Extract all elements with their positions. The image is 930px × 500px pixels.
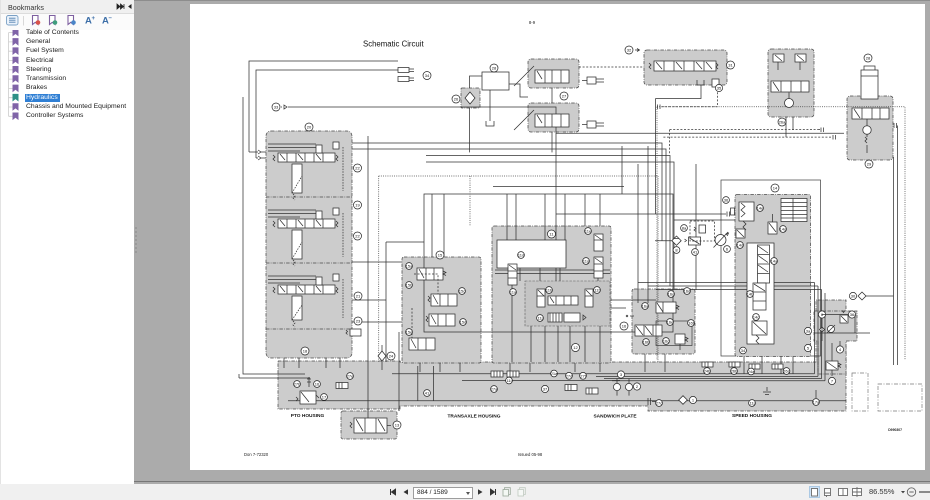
future attachment dashed outline b: [878, 384, 922, 411]
wire: chamber interconnects: [512, 268, 598, 362]
wire: midfield bundle upper: [352, 143, 662, 241]
wire: drops from body top into blocks: [432, 194, 600, 257]
circled label 16e: [667, 319, 675, 326]
coupling at block 14 inlet: [727, 208, 735, 217]
wire: pump interconnect verticals: [551, 88, 553, 152]
svg-text:TRANSAXLE HOUSING: TRANSAXLE HOUSING: [447, 414, 500, 420]
circled label 18: [301, 347, 309, 355]
circled label 11d: [518, 252, 525, 259]
circled label 15b: [406, 282, 414, 289]
valve 14g: [768, 214, 777, 234]
circled label 14e: [757, 205, 765, 212]
tank symbol below 31: [697, 80, 704, 85]
block 15 internals: [409, 268, 457, 350]
wire: midfield bundle third: [426, 156, 670, 287]
drain restrictor 35: [712, 79, 723, 92]
valve 11g: [594, 257, 603, 278]
svg-text:8-9: 8-9: [529, 20, 536, 25]
solenoid block 26a: [768, 49, 814, 117]
future attachment dashed outline a: [852, 373, 868, 411]
circled label 14c: [753, 314, 760, 321]
wire: valve31 tank drop: [656, 85, 702, 214]
relief valve 24: [378, 345, 395, 370]
svg-text:23: 23: [356, 319, 361, 324]
transaxle dashed boundary: [379, 176, 658, 362]
svg-text:19: 19: [355, 203, 360, 208]
svg-text:30: 30: [851, 294, 856, 299]
wire: far-left vertical supply: [239, 97, 310, 378]
valve 14d: [736, 229, 745, 238]
inner dashed boundary: [469, 176, 471, 226]
accumulator 14e: [739, 202, 754, 230]
governor spool 14b: [753, 283, 766, 310]
circled label 15: [436, 251, 444, 259]
svg-text:14e: 14e: [757, 206, 764, 211]
wire: speed feeds: [695, 164, 697, 290]
svg-text:15c: 15c: [459, 289, 465, 294]
svg-text:27: 27: [562, 94, 567, 99]
circled label 2: [633, 383, 640, 390]
circled label 15c: [459, 288, 466, 295]
wire: links to block 16: [611, 300, 656, 308]
stack module 3 spool valve: [268, 274, 343, 327]
svg-text:14d: 14d: [737, 243, 744, 248]
circled label 26a: [778, 118, 786, 126]
speed band fittings: [702, 362, 713, 367]
speed fitting b: [729, 362, 740, 367]
circled label 32: [625, 46, 640, 54]
circled label 27a: [491, 386, 499, 393]
stack module 1 spool valve: [268, 142, 343, 200]
PTO clutch valve block 13: [341, 411, 397, 439]
circled label 21: [354, 292, 362, 300]
circled label 41a: [692, 249, 699, 256]
svg-text:16a: 16a: [642, 304, 649, 309]
circled label 22 lower: [354, 232, 362, 240]
wire: band bundle pipes: [392, 374, 825, 381]
svg-text:24b: 24b: [704, 369, 711, 374]
speed spool chamber: [747, 243, 774, 344]
circled label 15e: [406, 329, 414, 336]
valve cluster block 16: [632, 289, 695, 354]
svg-text:11j: 11j: [537, 316, 542, 321]
svg-text:17a: 17a: [813, 400, 820, 405]
svg-text:+: +: [92, 16, 96, 22]
pto relief valve 17: [296, 391, 327, 404]
pressure filter 8: [655, 236, 681, 245]
solenoid block 26a internals: [771, 54, 809, 108]
svg-text:26a: 26a: [779, 120, 786, 125]
svg-text:11d: 11d: [518, 253, 524, 258]
pilot valve spring: [694, 225, 706, 233]
pto band fitting: [336, 383, 348, 389]
block 11 inner chamber: [497, 240, 566, 268]
svg-text:22: 22: [355, 234, 360, 239]
stack module 2 divider: [266, 262, 352, 264]
wire: reservoir to pump 27: [509, 84, 528, 97]
wire: stack bottom drops: [284, 358, 340, 368]
svg-text:26b: 26b: [731, 369, 738, 374]
speed control block 14: [735, 195, 811, 357]
wire: central body outline: [424, 194, 673, 332]
pump 27 lower internals: [514, 110, 604, 130]
svg-text:41: 41: [425, 391, 430, 396]
circled label 15d: [460, 319, 467, 326]
valve 11a: [508, 264, 517, 285]
svg-text:16: 16: [315, 382, 320, 387]
circled label 26: [452, 95, 460, 103]
solenoid valve 11h: [585, 289, 593, 307]
svg-text:32: 32: [627, 48, 632, 53]
circled label 11: [548, 230, 556, 238]
svg-text:26c: 26c: [783, 369, 789, 374]
transaxle band mufflers: [491, 371, 519, 377]
svg-text:36: 36: [850, 312, 855, 317]
wire: cluster drops to band: [531, 326, 600, 362]
circled label 22 upper: [354, 164, 362, 172]
svg-text:31: 31: [728, 63, 733, 68]
speed tank symbol: [763, 387, 771, 395]
stack module 1 divider: [266, 196, 352, 198]
filter element 26: [465, 92, 475, 104]
valve 14c body: [752, 321, 767, 344]
stack module 2 spool valve: [268, 208, 343, 266]
circled label 7: [828, 377, 835, 384]
wire: left feed pair to connector 34: [249, 61, 398, 158]
circled label 11f: [594, 287, 601, 294]
circled label 14a: [771, 258, 779, 265]
svg-text:27a: 27a: [491, 387, 498, 392]
circled label 11g: [583, 258, 590, 265]
sandwich coupling: [648, 398, 656, 405]
wire: test port 33 run: [288, 107, 556, 226]
band fitting a: [565, 385, 577, 391]
dashed pilot to valve 31: [579, 66, 644, 68]
wire: tank return from reservoir 28: [489, 90, 491, 121]
wire: bottom main pipe: [288, 400, 846, 402]
cluster pump: [820, 325, 836, 333]
circled label 27: [560, 92, 568, 100]
svg-text:3a: 3a: [806, 329, 811, 334]
pilot connector lower: [833, 135, 836, 140]
circled label 19: [354, 201, 362, 209]
svg-text:16e: 16e: [667, 320, 674, 325]
wire: upper feed line: [493, 186, 624, 188]
svg-text:11i: 11i: [506, 378, 511, 383]
svg-text:22: 22: [355, 166, 360, 171]
svg-text:11g: 11g: [583, 259, 589, 264]
svg-text:26: 26: [454, 97, 459, 102]
circled label 14: [771, 184, 779, 192]
block 16 internals: [626, 302, 692, 350]
pump block 27 upper: [528, 59, 579, 88]
test coupling 33: [281, 105, 287, 109]
accumulator block 29: [847, 96, 893, 160]
svg-text:Don 7-72320: Don 7-72320: [244, 452, 269, 457]
circled label 34: [423, 72, 431, 80]
circled label 27d: [566, 372, 573, 379]
valve 41: [685, 237, 701, 245]
svg-text:PTO HOUSING: PTO HOUSING: [291, 413, 325, 419]
circled label 5: [804, 344, 811, 351]
housing band (PTO / transaxle / sandwich / speed): [278, 300, 846, 411]
svg-text:13: 13: [395, 423, 400, 428]
wire: band drops from block 15: [420, 363, 460, 372]
suction filter block 26: [461, 88, 480, 108]
svg-text:Schematic Circuit: Schematic Circuit: [363, 40, 424, 49]
circled label 36: [723, 197, 730, 204]
circled label 23: [354, 317, 362, 325]
svg-text:18: 18: [303, 349, 308, 354]
circled label 11b: [546, 287, 553, 294]
circled label 12: [572, 344, 580, 352]
svg-text:16: 16: [622, 324, 627, 329]
pilot connector upper: [819, 128, 824, 133]
circled label 16a: [642, 303, 650, 310]
svg-text:24a: 24a: [748, 369, 755, 374]
relief valve 23: [346, 329, 361, 336]
circled label 28 right: [864, 54, 872, 62]
speed fitting d: [772, 364, 783, 369]
svg-text:8a: 8a: [682, 226, 687, 231]
suction strainer 1: [679, 396, 697, 405]
svg-text:SPEED HOUSING: SPEED HOUSING: [732, 413, 772, 419]
svg-text:34: 34: [425, 73, 430, 78]
svg-text:16f: 16f: [688, 321, 694, 326]
circled label 14g: [668, 291, 675, 298]
circled label 6: [818, 311, 825, 318]
circled label 8: [673, 247, 680, 254]
wire: B16 feed verticals: [638, 146, 648, 303]
circled label 34b: [740, 347, 747, 354]
wire: riser bundle to speed cluster: [815, 283, 826, 381]
wire: x399 drop: [398, 332, 400, 411]
dashed drop from valve 31: [660, 85, 718, 107]
wire: band drops from block 14: [744, 357, 793, 374]
variable pump 6: [714, 232, 729, 248]
directional valve block 31: [644, 50, 727, 85]
svg-text:15d: 15d: [460, 320, 467, 325]
svg-text:15: 15: [438, 253, 443, 258]
connector plug 34: [398, 68, 414, 82]
circled label 20: [305, 123, 313, 131]
svg-text:27f: 27f: [580, 373, 586, 378]
circled label 6a: [724, 246, 731, 253]
svg-text:28: 28: [492, 66, 497, 71]
circled label 26c: [783, 368, 790, 375]
dashed vertical x669: [669, 130, 671, 154]
circled label 11j: [537, 315, 544, 322]
wire: stack-to-15 links: [352, 262, 402, 322]
solenoid valve 11b: [537, 289, 545, 307]
svg-text:15e: 15e: [406, 330, 413, 335]
circled label 16f: [688, 320, 695, 327]
svg-text:15b: 15b: [406, 283, 413, 288]
svg-text:11e: 11e: [585, 229, 592, 234]
svg-text:14: 14: [773, 186, 778, 191]
dashed pilot to accumulator block upper: [670, 129, 820, 131]
svg-text:34: 34: [741, 348, 746, 353]
accumulator cylinder 28: [861, 66, 878, 99]
circled label 29: [865, 160, 873, 168]
wire: junction drop to main rect: [621, 146, 623, 194]
circled label 33: [272, 103, 280, 111]
circled label 16c: [663, 338, 670, 345]
coupling at BD right: [894, 123, 897, 128]
circled label 13: [393, 421, 401, 429]
svg-text:27e: 27e: [347, 374, 354, 379]
wire: band interior drops: [418, 366, 620, 401]
band fitting b: [586, 388, 598, 394]
circled label 11i: [506, 377, 513, 384]
wire: BC drops: [786, 117, 793, 137]
circled label 36a: [848, 311, 855, 318]
wire: secondary body outline: [386, 242, 424, 362]
circled label 14b: [747, 291, 755, 298]
reservoir 28: [482, 72, 509, 90]
svg-text:12: 12: [573, 345, 578, 350]
circled label 27f: [580, 372, 587, 379]
circled label 27e: [347, 373, 355, 380]
svg-text:16g: 16g: [668, 292, 675, 297]
svg-text:11f: 11f: [594, 288, 600, 293]
circled label 16d: [684, 288, 691, 295]
circled label 3a: [804, 327, 811, 334]
pto fitting 27b: [294, 381, 302, 388]
svg-text:D990307: D990307: [888, 428, 902, 432]
circled label 26b: [731, 368, 739, 375]
valve stack block 20: [266, 131, 352, 358]
svg-text:20: 20: [307, 125, 312, 130]
accumulator block 29 internals: [852, 108, 889, 153]
svg-text:27d: 27d: [566, 373, 573, 378]
svg-text:–: –: [109, 16, 113, 22]
svg-text:11b: 11b: [546, 288, 553, 293]
speed side valve cluster block: [814, 311, 857, 374]
circled label 37: [541, 385, 548, 392]
spool 11 center: [548, 296, 578, 305]
svg-text:14c: 14c: [753, 315, 759, 320]
wire: band drops from block 16: [645, 354, 665, 372]
circled label 24b: [704, 368, 712, 375]
speed fitting c: [749, 364, 760, 369]
valve 31 spool: [649, 61, 718, 71]
wire: filter drop: [470, 76, 483, 152]
svg-text:21: 21: [356, 294, 361, 299]
circled label 3: [617, 371, 624, 378]
wire: band drops from block 11: [510, 363, 600, 372]
coupling on dashed return: [658, 105, 661, 110]
svg-text:28: 28: [866, 56, 871, 61]
control block 15: [402, 257, 481, 363]
svg-text:Issued 05-98: Issued 05-98: [518, 452, 543, 457]
speed housing dashed boundary: [657, 107, 905, 360]
circled label 11e: [585, 228, 592, 235]
circled label 15a: [406, 263, 414, 270]
svg-text:33: 33: [274, 105, 279, 110]
wire: BD risers: [866, 126, 898, 366]
svg-text:41: 41: [693, 250, 698, 255]
breather 30: [849, 292, 866, 300]
svg-text:37: 37: [543, 387, 548, 392]
circled label 16b: [643, 339, 651, 346]
svg-text:14a: 14a: [771, 259, 778, 264]
dashed pilot to accumulator block lower: [663, 136, 832, 138]
pump block 27 lower: [528, 103, 579, 132]
cluster pilot valve: [840, 311, 848, 324]
svg-text:16d: 16d: [684, 289, 691, 294]
wire: midfield bundle lower: [426, 162, 674, 290]
circled label 41: [424, 390, 431, 397]
circled label 14d: [737, 242, 744, 249]
pto bleed 16: [307, 377, 320, 387]
circled label 27c: [656, 400, 663, 407]
filter 11j pair: [548, 313, 586, 322]
svg-text:21a: 21a: [551, 371, 558, 376]
svg-text:16b: 16b: [643, 340, 650, 345]
pump 27 upper internals: [514, 66, 604, 86]
svg-text:35: 35: [717, 86, 722, 91]
circled label 28: [490, 64, 498, 72]
valve 11e: [594, 234, 603, 251]
svg-text:15a: 15a: [406, 264, 413, 269]
svg-text:14g: 14g: [780, 227, 787, 232]
wire: valve 13 outlet: [387, 425, 391, 427]
svg-text:27b: 27b: [294, 382, 301, 387]
svg-text:29: 29: [867, 162, 872, 167]
svg-text:24: 24: [389, 354, 394, 359]
wire: midfield bundle second: [352, 149, 666, 283]
dashed pilot box: [690, 221, 715, 241]
circled label 24a: [748, 368, 756, 375]
svg-text:11j: 11j: [749, 401, 754, 406]
speed spool 14a: [758, 245, 770, 283]
speed region outer boundary: [721, 180, 821, 356]
svg-text:36: 36: [724, 198, 729, 203]
circled label 14g: [780, 226, 787, 233]
svg-text:14b: 14b: [747, 292, 754, 297]
svg-text:SANDWICH PLATE: SANDWICH PLATE: [593, 414, 637, 420]
circled label 11a: [510, 289, 517, 296]
wire: cross links to riser bundle: [638, 283, 822, 290]
wire: cluster internals: [814, 315, 870, 347]
stack inlet couplings: [258, 150, 266, 160]
stack module 3 divider: [266, 328, 352, 330]
wire: stack right long vertical: [367, 136, 369, 411]
circled label 4: [836, 346, 843, 353]
sandwich plate pumps: [613, 378, 632, 395]
wire: feed into block 14: [556, 214, 735, 220]
main valve block 11/12: [492, 226, 611, 363]
svg-text:17: 17: [322, 395, 327, 400]
svg-text:27c: 27c: [656, 401, 662, 406]
svg-text:16c: 16c: [663, 339, 669, 344]
wire: pto drop to valve 13: [368, 409, 399, 418]
wire: block 11 cross lines: [495, 226, 610, 281]
sub-block 12 cluster: [525, 281, 610, 326]
circled label 8a: [681, 225, 688, 232]
circled label 31: [727, 61, 735, 69]
circled label 11j: [749, 400, 756, 407]
speed side cluster valve: [826, 343, 841, 376]
circled label 21a: [551, 370, 559, 377]
circled label 17a: [813, 390, 821, 405]
tank symbol: [486, 121, 494, 126]
solid feed to accumulator pump: [556, 132, 844, 134]
valve logic table: [781, 199, 807, 222]
circled label 16: [620, 322, 628, 330]
svg-text:11a: 11a: [510, 290, 517, 295]
